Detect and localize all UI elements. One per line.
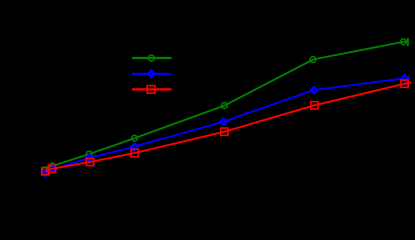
blue series line <box>45 77 409 173</box>
legend: blue entry (line + filled diamond) <box>132 69 172 79</box>
blue diamond markers (with dark centre dot) <box>40 74 409 178</box>
red square markers <box>42 80 409 175</box>
green circle markers <box>43 39 407 173</box>
green series line <box>46 41 408 170</box>
green right border stub <box>407 38 409 46</box>
legend: red entry (line + open square) <box>132 86 172 94</box>
red series line <box>45 82 411 171</box>
blue right border stub <box>408 76 410 79</box>
legend: green entry (line + open circle) <box>132 55 172 61</box>
